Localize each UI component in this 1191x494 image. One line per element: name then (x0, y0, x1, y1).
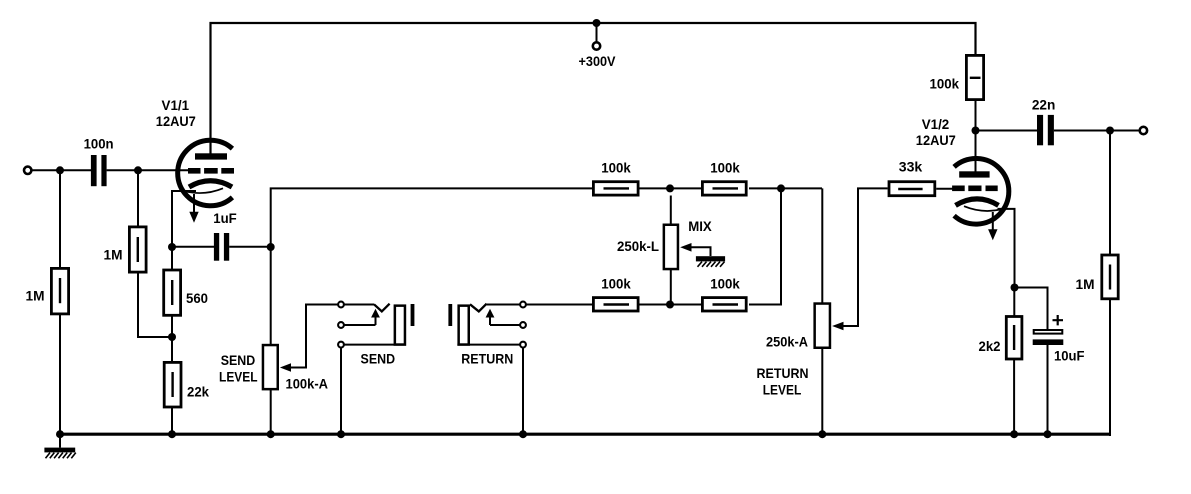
ground main (44, 448, 75, 453)
resistor R11 2k2 (1006, 317, 1022, 360)
jack J2 RETURN tip bar (448, 304, 452, 326)
capacitor C4 10uF positive plate (1034, 330, 1063, 334)
wire R5 to node F (640, 187, 702, 189)
svg-text:LEVEL: LEVEL (763, 382, 802, 398)
jack J2 switch notch (470, 304, 487, 312)
potentiometer P1 wiper arrow (280, 363, 291, 372)
triode V1/2 cathode (956, 199, 999, 206)
svg-text:1uF: 1uF (213, 210, 237, 226)
jack J2 switch arrow (489, 317, 491, 325)
jack J2 body (459, 306, 469, 345)
resistor R5 100k upper left (593, 182, 638, 195)
node K cathode junction (1011, 284, 1019, 292)
wire R7 to node H (640, 304, 702, 306)
svg-text:100k-A: 100k-A (286, 376, 329, 392)
triode V1/1 cathode arrow (193, 194, 195, 213)
svg-text:10uF: 10uF (1054, 347, 1085, 363)
svg-text:100n: 100n (84, 135, 114, 151)
wire J1 tip contact (345, 304, 375, 306)
node E (168, 333, 176, 341)
wire node F to P2 (670, 196, 672, 225)
wire HT supply rail (211, 23, 976, 156)
svg-text:SEND: SEND (221, 352, 256, 368)
wire P2 wiper to ground (691, 247, 711, 256)
wire node E to R4 (171, 337, 173, 362)
wire J1 sleeve (345, 344, 407, 346)
triode V1/1 cathode lead curve (185, 188, 223, 193)
wire node G to P3 (821, 188, 823, 303)
node grid junction B (134, 166, 142, 174)
triode V1/2 envelope (954, 159, 1009, 225)
svg-text:RETURN: RETURN (757, 365, 809, 381)
svg-text:22k: 22k (187, 384, 209, 400)
svg-text:SEND: SEND (361, 350, 396, 366)
node input junction A (56, 166, 64, 174)
wire input to C1 (32, 169, 91, 171)
wire node J to R12 (1109, 131, 1111, 255)
svg-text:1M: 1M (26, 288, 45, 304)
wire J2 tip contact (487, 304, 520, 306)
svg-text:560: 560 (186, 290, 208, 306)
triode V1/1 anode (195, 153, 227, 159)
node HT rail junction (593, 19, 601, 27)
svg-text:MIX: MIX (688, 218, 712, 234)
svg-text:100k: 100k (930, 75, 960, 91)
wire R2 to cathode node (138, 273, 172, 338)
capacitor C2 1uF (214, 233, 229, 261)
svg-text:RETURN: RETURN (461, 350, 513, 366)
ground MIX (696, 256, 725, 261)
node C cathode junction (168, 243, 176, 251)
terminal input (24, 167, 31, 174)
resistor R8 100k lower right (702, 298, 746, 311)
svg-text:33k: 33k (899, 159, 923, 175)
triode V1/1 envelope (178, 140, 233, 206)
resistor R9 33k (889, 182, 935, 196)
node G (777, 184, 785, 192)
resistor R2 1M (129, 227, 146, 272)
resistor R10 100k anode (966, 55, 983, 99)
jack J1 switch notch (374, 304, 390, 312)
node J output junction (1106, 127, 1114, 135)
wire P3 to ground rail (821, 349, 823, 436)
svg-text:100k: 100k (710, 276, 740, 292)
wire R11 to ground rail (1013, 360, 1015, 436)
wire R8 to node G riser (749, 188, 781, 304)
jack J1 body (395, 306, 405, 345)
label C4 plus (1053, 315, 1064, 325)
potentiometer P3 250k-A body (815, 304, 830, 348)
svg-text:22n: 22n (1032, 96, 1056, 112)
svg-text:250k-L: 250k-L (617, 238, 659, 254)
svg-text:2k2: 2k2 (979, 338, 1001, 354)
jack J1 SEND terminals (338, 302, 344, 308)
jack J1 switch arrow (375, 317, 377, 325)
potentiometer P3 wiper arrow (832, 322, 843, 331)
triode V1/2 anode (959, 171, 989, 177)
triode V1/2 cathode arrow (992, 212, 994, 230)
node F (666, 184, 674, 192)
wire node B to R2 (137, 170, 139, 225)
svg-text:12AU7: 12AU7 (156, 113, 196, 129)
wire +300V stub (596, 23, 598, 42)
wire ground stub (59, 434, 61, 448)
terminal output (1140, 127, 1147, 134)
wire node C to C2 (172, 246, 214, 248)
resistor R7 100k lower left (593, 298, 638, 311)
wire J2 sleeve (457, 344, 519, 346)
resistor R4 22k (164, 362, 181, 407)
wire R4 to ground rail (171, 407, 173, 436)
capacitor C4 10uF negative plate (1033, 339, 1064, 345)
wire V1/2 cathode to node K (998, 209, 1015, 288)
wire C3 to output (1054, 130, 1139, 132)
svg-text:V1/1: V1/1 (162, 97, 190, 113)
wire node K to C4 (1015, 288, 1048, 330)
node ground rail dots (56, 430, 1052, 438)
wire R10 to V1/2 anode (975, 101, 977, 172)
wire ground rail (60, 433, 1110, 436)
svg-text:1M: 1M (104, 247, 123, 263)
wire P1 wiper to J1 tip (290, 305, 338, 368)
potentiometer P2 wiper arrow (680, 243, 691, 252)
wire P1 to ground rail (270, 390, 272, 436)
potentiometer P2 250k-L body (664, 225, 678, 269)
svg-text:V1/2: V1/2 (922, 116, 950, 132)
wire node C to R3 (171, 247, 173, 270)
svg-text:LEVEL: LEVEL (219, 368, 258, 384)
wire P3 wiper to R9 (843, 188, 888, 326)
node I anode junction (972, 127, 980, 135)
jack J1 tip bar (411, 304, 415, 326)
jack J2 terminals (520, 302, 526, 308)
resistor R6 100k upper right (702, 182, 746, 195)
wire P2 to node H (670, 270, 672, 306)
svg-text:250k-A: 250k-A (766, 334, 808, 350)
wire C2 to node D (229, 246, 271, 248)
terminal +300V (593, 42, 600, 49)
resistor R3 560 (164, 270, 181, 315)
capacitor C1 100n (91, 155, 107, 186)
wire node D riser and P1 feed (271, 188, 592, 344)
wire J2 tip to mixer (527, 304, 593, 306)
wire node K to R11 (1013, 288, 1015, 317)
node D coupling junction (267, 243, 275, 251)
capacitor C3 22n (1037, 115, 1054, 145)
wire C4 to ground rail (1047, 345, 1049, 435)
svg-text:1M: 1M (1076, 276, 1095, 292)
potentiometer P1 100k-A body (263, 345, 278, 389)
triode V1/1 cathode (189, 181, 232, 187)
wire J1 sleeve to ground rail (340, 348, 342, 435)
wire R3 to node E (171, 315, 173, 338)
wire C1 to V1/1 grid (107, 169, 188, 171)
wire node A to R1 (59, 170, 61, 267)
wire V1/1 cathode to node C (172, 191, 196, 247)
wire R12 to ground rail (1109, 300, 1111, 437)
triode V1/2 grid (952, 186, 998, 192)
wire R9 to V1/2 grid (936, 188, 952, 190)
svg-text:100k: 100k (601, 160, 631, 176)
svg-text:100k: 100k (601, 276, 631, 292)
svg-text:+300V: +300V (579, 53, 617, 69)
wire R1 to ground rail (59, 314, 61, 435)
node H (666, 301, 674, 309)
resistor R12 1M (1102, 255, 1118, 299)
wire J1 ring contact (345, 324, 376, 326)
wire J2 ring contact (490, 324, 520, 326)
triode V1/2 cathode lead curve (964, 206, 1002, 211)
svg-text:100k: 100k (710, 160, 740, 176)
resistor R1 1M (51, 268, 68, 314)
wire R6 to node G (749, 187, 822, 189)
svg-text:12AU7: 12AU7 (916, 132, 956, 148)
triode V1/1 grid (188, 168, 234, 174)
wire J2 sleeve to ground rail (522, 348, 524, 435)
wire node I to C3 (976, 130, 1038, 132)
